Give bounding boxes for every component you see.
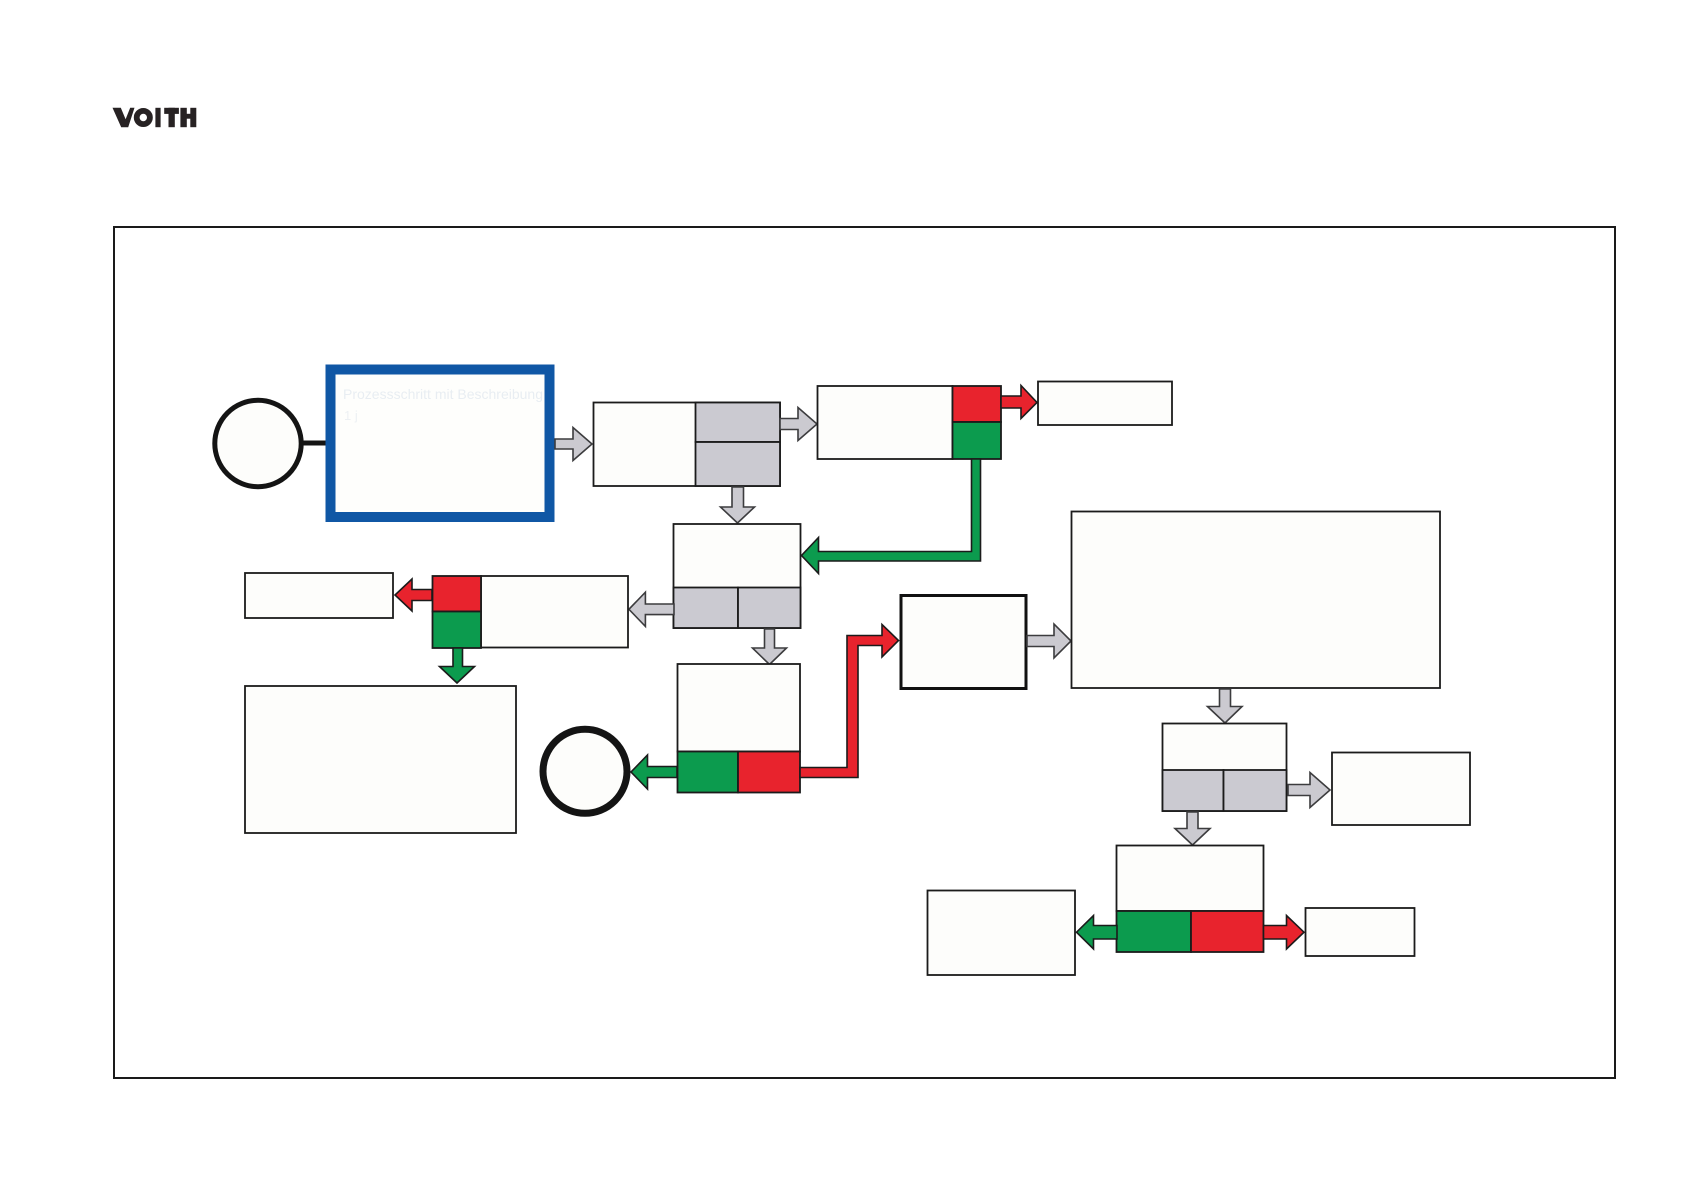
VOITH logo wordmark (113, 108, 197, 127)
box E green cell (433, 612, 482, 649)
gray arrow box D to box E (629, 592, 674, 626)
svg-text:1 j: 1 j (344, 408, 358, 423)
box H green cell (678, 752, 739, 793)
gray arrow box K down to box M (1175, 812, 1210, 845)
box M red cell (1191, 911, 1264, 952)
box C (1038, 382, 1172, 426)
connector line circle to blue box (300, 441, 326, 446)
box A gray cell top (696, 403, 781, 443)
box L (1332, 753, 1470, 826)
blue highlighted box (331, 370, 550, 518)
outer container frame (114, 227, 1615, 1078)
box K gray cell right (1224, 770, 1287, 811)
box M white part (1117, 846, 1264, 912)
gray arrow box I to box J (1027, 624, 1071, 658)
box H red cell (738, 752, 800, 793)
green arrow box H to end circle (631, 755, 677, 789)
green arrow box E down to box G (440, 648, 475, 683)
box I (901, 596, 1026, 689)
gray arrow box D down to box H (753, 629, 787, 665)
svg-text:Prozessschritt mit Beschreibun: Prozessschritt mit Beschreibung (343, 386, 543, 402)
box K white part (1163, 724, 1287, 812)
box G (245, 686, 516, 833)
box K gray cell left (1163, 770, 1224, 811)
gray arrow box K to box L (1288, 773, 1330, 808)
box E red cell (433, 576, 482, 612)
box B red cell (953, 386, 1002, 422)
box F (245, 573, 393, 618)
green arrow box M to box N (1077, 916, 1118, 950)
box M green cell (1117, 911, 1192, 952)
red arrow box B to box C (1001, 386, 1037, 419)
box H white part (678, 664, 801, 752)
box O (1306, 908, 1415, 956)
box D gray cell right (738, 588, 801, 629)
gray arrow box J down to box K (1208, 689, 1243, 723)
red arrow box E to box F (395, 579, 432, 611)
box D gray cell left (674, 588, 739, 629)
box A gray cell bottom (696, 442, 781, 486)
red arrow box M to box O (1264, 916, 1305, 950)
box E white part (481, 576, 628, 648)
box B white part (818, 386, 953, 459)
green elbow connector box B to box D (802, 459, 981, 574)
box N (928, 891, 1076, 976)
end circle (543, 729, 627, 813)
box D white part (674, 524, 801, 628)
box B green cell (953, 422, 1002, 459)
red elbow connector box H to box I (800, 625, 899, 778)
box J (1072, 512, 1441, 689)
box A white part (594, 403, 781, 487)
gray arrow box A to box B (780, 408, 817, 441)
gray arrow blue box to box A (555, 428, 592, 461)
gray arrow box A down to box D (721, 487, 755, 523)
start circle (215, 400, 301, 486)
